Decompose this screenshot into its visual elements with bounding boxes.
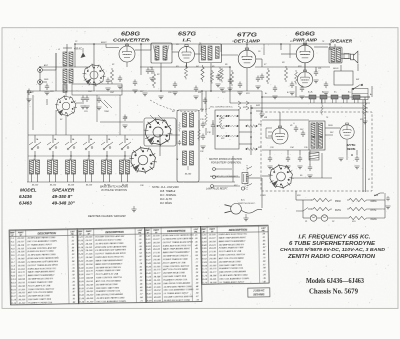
pilot resistor row 2 — [296, 208, 308, 212]
tube 6G6G V4 — [296, 43, 314, 63]
resistor R4 — [201, 65, 204, 82]
divider column — [250, 105, 252, 155]
tube V6 vibrator — [272, 126, 288, 144]
capacitor C25 — [273, 86, 277, 93]
wire battery leads — [248, 177, 262, 179]
coil bank group 6 — [124, 135, 126, 143]
AC plug — [231, 204, 242, 215]
capacitor C30 — [308, 165, 312, 172]
cap C8 right — [386, 196, 390, 201]
tube socket view S3 (1st det) — [144, 118, 173, 147]
padder caps cluster — [201, 122, 205, 129]
capacitor C12 — [81, 96, 85, 103]
socket S2 leads — [65, 91, 67, 96]
switch SW2 — [353, 85, 362, 89]
wire top bus — [75, 43, 330, 45]
switch contact 5 — [101, 142, 113, 145]
tube socket view S2 — [55, 95, 77, 117]
wire AVC bus — [28, 90, 262, 92]
jack terminals — [213, 168, 216, 171]
stamp box — [248, 288, 270, 297]
tone box inner vertical resistor — [219, 115, 222, 128]
grid cap lead 6D8G — [106, 47, 119, 49]
gnd marks row — [259, 114, 264, 117]
wire dashed box right verticals — [362, 100, 364, 192]
wire tuning link — [100, 121, 143, 123]
switch box right — [352, 89, 368, 100]
filter choke — [309, 152, 319, 160]
coil bank group 3 — [70, 135, 72, 143]
wire left bank edge — [27, 135, 29, 182]
antenna coil L3 — [63, 84, 67, 92]
antenna terminal G — [38, 80, 43, 85]
speaker horn — [351, 51, 358, 63]
wire choke right — [364, 97, 366, 101]
pilot resistor row 1 — [296, 199, 312, 201]
tube socket view S4 (osc) — [129, 146, 157, 173]
resistor R5b — [218, 67, 221, 81]
wire power box inner — [262, 175, 270, 177]
resistor R20 — [205, 112, 208, 125]
tone control network box — [215, 110, 239, 149]
short verticals top — [150, 44, 152, 50]
switch contact 3 — [65, 142, 77, 145]
pilot row 3 — [303, 217, 310, 219]
capacitor C26 — [314, 70, 318, 77]
switch contact 1 — [29, 142, 41, 145]
caps by vibrator — [294, 126, 298, 133]
resistor R22 — [221, 68, 224, 82]
wire bottom bus under coils — [27, 181, 235, 183]
trimmer arrow — [81, 53, 86, 59]
rectifier 6ZY5G — [340, 123, 354, 139]
power transformer T5 — [309, 121, 325, 150]
capacitor C20 — [27, 89, 31, 96]
filter caps — [268, 156, 272, 163]
coil bank group 5 — [106, 135, 108, 143]
switch contact 6 — [119, 142, 131, 145]
band switch coil bank — [28, 155, 131, 157]
tube 6T7G V3 — [238, 48, 256, 68]
switch contact 2 — [47, 142, 59, 145]
coil bank group 4 — [88, 135, 90, 143]
power supply dashed box — [261, 112, 372, 191]
wire mid column volume — [205, 91, 207, 112]
parts table 1 — [9, 229, 78, 305]
ground ant — [44, 92, 49, 95]
oscillator coil T4 — [177, 110, 199, 182]
junction dots — [74, 43, 76, 45]
pilot right vertical — [384, 200, 386, 218]
wire speaker to horn — [341, 53, 351, 55]
choke resistor — [363, 101, 366, 116]
wire det stage — [221, 54, 238, 56]
tube 6S7G V2 — [179, 45, 195, 63]
arrow marks B lines — [238, 101, 249, 105]
wires inside supply — [262, 119, 309, 121]
capacitor C40 — [85, 96, 89, 103]
wire extra verticals right — [315, 67, 317, 72]
pilot lamp 1 — [310, 215, 316, 221]
candohm resistor strip — [309, 95, 316, 99]
wire extra top-left — [55, 53, 57, 70]
wire B+ bus right — [262, 96, 370, 98]
coil bank group 1 — [34, 135, 36, 143]
wire 6G6G risers — [314, 46, 328, 48]
antenna terminal A1 — [38, 68, 43, 73]
parts table 4 — [201, 225, 270, 284]
ground legend symbol — [131, 209, 136, 212]
capacitor C24 — [260, 74, 264, 81]
capacitor C1 — [45, 84, 49, 91]
switch contact 4 — [83, 142, 95, 145]
trimmer arrows — [100, 100, 112, 108]
pilot left vertical — [302, 200, 304, 218]
resistor R8 — [284, 66, 287, 82]
gnd below plug — [243, 218, 248, 221]
coil bank group 2 — [52, 135, 54, 143]
parts table 2 — [77, 228, 146, 304]
antenna coil L2 — [63, 69, 67, 83]
tuning gang arrows — [150, 115, 168, 125]
resistor R23 — [295, 70, 298, 84]
resistor R7 — [266, 68, 269, 84]
dial cord arc — [150, 100, 210, 112]
capacitor C4 — [133, 80, 137, 87]
battery cable plug — [242, 173, 248, 184]
capacitor C28 — [211, 123, 215, 130]
capacitor C42 — [123, 115, 127, 122]
wire coil bank bus — [28, 134, 180, 136]
capacitor C10 — [290, 82, 294, 89]
tube V5 lower — [297, 70, 312, 87]
ground g2 — [132, 90, 137, 93]
extra caps under buses — [150, 68, 154, 75]
capacitor C23 — [228, 78, 232, 85]
parts table 3 — [145, 226, 202, 302]
battery switch dashed — [246, 165, 248, 190]
wire left column — [32, 95, 34, 130]
tube socket view S1 — [83, 64, 106, 87]
wire mid bus left — [40, 66, 90, 68]
voice coil — [344, 54, 349, 59]
tube socket view S5 — [268, 164, 293, 189]
vibrator hash — [266, 128, 272, 138]
resistor R5 — [210, 70, 213, 84]
resistor R21 — [198, 128, 201, 141]
pilot lamp 2 — [321, 215, 327, 221]
output transformer T3 — [329, 47, 342, 63]
wire top interconnects — [135, 49, 151, 51]
wire lamp feed — [295, 191, 297, 200]
capacitor C22 — [146, 68, 150, 75]
wire bus y103 — [230, 102, 370, 104]
resistor R2 — [152, 72, 155, 88]
capacitor C27 — [203, 98, 207, 105]
on-off switch — [374, 193, 384, 196]
tube 6D8G V1 — [119, 44, 135, 62]
wire bus y108 — [250, 107, 368, 109]
capacitor C41 — [97, 97, 101, 104]
wire into tone box — [239, 119, 252, 121]
IF transformer T1 — [151, 43, 172, 63]
IF transformer T2 — [199, 44, 222, 63]
resistor R1 — [110, 68, 113, 84]
antenna coil L1 — [63, 52, 67, 66]
resistor R6 — [230, 70, 233, 86]
resistor R3 — [184, 65, 187, 79]
shield box — [72, 84, 122, 95]
capacitor C8 — [194, 86, 198, 93]
capacitor C9 — [256, 76, 260, 83]
socket S3 shield box — [144, 118, 176, 146]
capacitor C7 — [173, 82, 177, 89]
resistor R24 — [321, 104, 323, 115]
scan speckle noise — [130, 70, 133, 73]
field coil box — [334, 71, 353, 85]
capacitor C21 — [118, 76, 122, 83]
osc coil inner parts — [179, 122, 181, 132]
wire verticals — [27, 91, 29, 135]
